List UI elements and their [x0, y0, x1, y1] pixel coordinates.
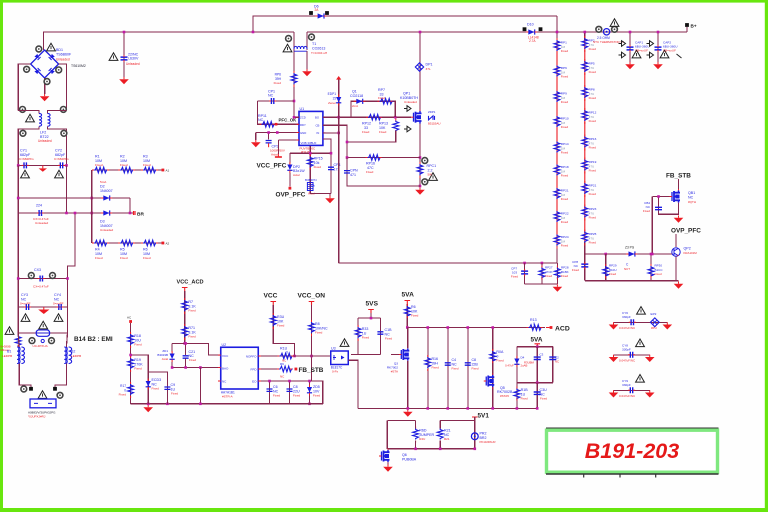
- wire 5V1 box top A: [387, 420, 415, 422]
- svg-text:10M: 10M: [143, 252, 150, 256]
- pad: [24, 66, 30, 72]
- wire right rail: [66, 165, 68, 213]
- wire to L2: [66, 333, 67, 347]
- wire bank1 c: [524, 263, 526, 284]
- inductor L2: [64, 347, 67, 364]
- capacitor CP4: [328, 167, 334, 169]
- svg-text:B3B3PN: B3B3PN: [305, 178, 317, 182]
- warning triangle BD1: [47, 43, 56, 51]
- svg-text:VCC: VCC: [264, 293, 278, 300]
- wire CB row: [323, 125, 347, 157]
- wire opto to gnd bus: [348, 360, 358, 408]
- warning triangle J1: [38, 391, 47, 399]
- MOSFET Q5: [486, 375, 494, 388]
- wire NOPFO row: [261, 355, 331, 357]
- svg-text:Fixed: Fixed: [362, 336, 370, 340]
- svg-text:0: 0: [533, 322, 535, 326]
- wire FPD row: [261, 368, 277, 370]
- svg-text:Fixed: Fixed: [561, 220, 569, 224]
- ground bridge: [44, 94, 46, 96]
- svg-text:Fixed: Fixed: [451, 367, 458, 371]
- tick mark: [677, 54, 682, 58]
- pad: [50, 273, 56, 279]
- svg-text:Z3 PG: Z3 PG: [625, 246, 635, 250]
- svg-text:NOPFO: NOPFO: [246, 355, 257, 359]
- diode D3: [103, 210, 109, 215]
- net PFC_OK: [275, 123, 278, 126]
- zener diode ZD3: [146, 381, 151, 386]
- resistor R10: [280, 353, 294, 359]
- photocoupler PR2: [471, 433, 478, 440]
- junction: [536, 381, 539, 384]
- capacitor CY1: [24, 162, 26, 168]
- wire D3 row: [18, 212, 133, 214]
- title block box: [547, 430, 718, 472]
- resistor RP29: [603, 266, 609, 277]
- wire VCC_ACD column: [184, 291, 186, 343]
- svg-text:Fixed: Fixed: [188, 335, 196, 339]
- wire ACD bus: [407, 327, 545, 329]
- MOSFET QP1: [414, 111, 422, 124]
- wire bank1 r2: [556, 263, 558, 284]
- svg-text:#STA: #STA: [391, 370, 398, 374]
- ground CY9 right: [649, 390, 651, 392]
- resistor RP23: [582, 207, 588, 218]
- svg-text:Fixed: Fixed: [411, 314, 419, 318]
- MOSFET QB1: [672, 190, 680, 203]
- wire bridge top: [43, 32, 45, 50]
- svg-text:C=682PFs: C=682PFs: [54, 157, 69, 161]
- wire 5V1 box top B: [440, 420, 475, 422]
- svg-text:D4: D4: [521, 356, 525, 360]
- probe arrow CAP2 a: [647, 41, 654, 47]
- warning triangle LF2: [26, 114, 35, 122]
- transistor QP2: [672, 248, 680, 256]
- svg-text:1N4007: 1N4007: [100, 224, 113, 228]
- wire U2 gnd row: [172, 367, 221, 369]
- earth ground CY: [42, 165, 44, 168]
- svg-text:Fixed: Fixed: [511, 275, 518, 279]
- polarity mark F1: [41, 339, 44, 342]
- resistor RP28: [555, 268, 561, 279]
- resistor R19: [128, 358, 134, 369]
- pad R6 out: [162, 242, 165, 245]
- wire Q3 drain 2: [407, 328, 409, 341]
- capacitor CX2: [39, 210, 41, 216]
- svg-text:15: 15: [332, 96, 336, 100]
- resistor R7: [182, 300, 188, 311]
- wire comp bottom row: [310, 192, 331, 194]
- wire left rail 4: [17, 307, 19, 333]
- resistor RP12: [368, 114, 382, 120]
- ground CAP1: [629, 62, 631, 64]
- svg-text:330pF: 330pF: [622, 347, 631, 351]
- net BR: [134, 211, 136, 215]
- wire gate speedup loop: [351, 101, 395, 117]
- power pin 5VS: [368, 310, 374, 314]
- resistor RP16: [582, 137, 588, 148]
- zener ZDP1: [429, 116, 434, 120]
- svg-text:R3UBM: R3UBM: [524, 361, 534, 365]
- svg-text:10M: 10M: [95, 252, 102, 256]
- IC U2: [221, 347, 259, 389]
- capacitor CB4: [655, 207, 662, 209]
- svg-text:B2: B2: [71, 350, 75, 354]
- svg-text:C=682PFs: C=682PFs: [19, 157, 34, 161]
- svg-text:Fixed: Fixed: [589, 47, 597, 51]
- ground CY8 left: [613, 355, 615, 357]
- wire RDY row: [257, 101, 299, 124]
- svg-text:Unleaded: Unleaded: [126, 62, 140, 66]
- power pin 5VA2: [535, 344, 541, 348]
- wire VCC_ON column: [311, 305, 313, 381]
- earth ground CY3: [40, 307, 48, 313]
- wire 5VS box bottom: [351, 354, 380, 356]
- wire divider chain 2 top: [584, 32, 586, 40]
- svg-text:Unleaded: Unleaded: [100, 228, 114, 232]
- thermistor TH1: [603, 29, 609, 35]
- diode EP2: [650, 318, 659, 327]
- svg-text:Fixed: Fixed: [119, 393, 127, 397]
- wire C8 column: [467, 328, 469, 409]
- svg-text:GND: GND: [300, 131, 306, 135]
- wire C8 column: [289, 381, 291, 404]
- junction: [74, 212, 77, 215]
- pad ACL: [129, 320, 132, 323]
- svg-text:Fixed: Fixed: [589, 96, 597, 100]
- wire CY3 row: [18, 306, 67, 308]
- wire EDP1 long vertical: [338, 80, 340, 264]
- svg-text:D10: D10: [527, 23, 534, 27]
- wire 5V1 stub: [474, 417, 476, 421]
- wire OVP_PFC row: [585, 253, 672, 255]
- warning triangle CAP2: [660, 50, 669, 58]
- wire fuse row: [18, 332, 67, 334]
- svg-text:B14 B2 : EMI: B14 B2 : EMI: [74, 336, 113, 343]
- wire to ground U1: [255, 133, 257, 141]
- svg-text:Q6: Q6: [402, 453, 407, 457]
- svg-text:NC: NC: [688, 195, 694, 199]
- wire C21 bottom: [185, 359, 187, 368]
- ground Q6: [387, 465, 389, 467]
- junction: [650, 253, 653, 256]
- svg-text:Fixed: Fixed: [643, 209, 650, 213]
- wire C21 stub: [185, 343, 187, 355]
- IC U1: [299, 111, 323, 145]
- svg-text:Fixed: Fixed: [589, 169, 597, 173]
- svg-text:Fixed: Fixed: [561, 274, 568, 278]
- junction: [337, 132, 340, 135]
- diode D4: [514, 359, 519, 364]
- resistor RP2: [582, 38, 588, 49]
- pad: [21, 386, 27, 392]
- capacitor C9: [164, 387, 170, 389]
- pad R3 out: [162, 169, 165, 172]
- svg-text:5VA: 5VA: [402, 292, 415, 299]
- warning triangle CY3: [21, 314, 30, 322]
- junction: [308, 380, 311, 383]
- junction: [604, 253, 607, 256]
- svg-text:Fixed: Fixed: [589, 119, 597, 123]
- svg-text:Unleaded: Unleaded: [38, 139, 52, 143]
- svg-text:OVP_PFC: OVP_PFC: [276, 192, 306, 199]
- ground bank2: [678, 282, 680, 284]
- svg-text:0-Px: 0-Px: [332, 370, 339, 374]
- pad: [61, 107, 67, 113]
- svg-text:330pF: 330pF: [622, 383, 631, 387]
- capacitor CP2: [266, 141, 272, 143]
- resistor R18b: [514, 389, 520, 400]
- svg-text:Fixed: Fixed: [134, 367, 142, 371]
- probe arrow QP1 gate: [404, 106, 411, 112]
- resistor RP18: [554, 165, 560, 176]
- wire 5VA stub: [406, 304, 408, 328]
- wire left rail: [17, 165, 19, 198]
- svg-text:T=0.004 uH: T=0.004 uH: [311, 51, 327, 55]
- svg-text:Fixed: Fixed: [609, 272, 616, 276]
- wire LF2 top right: [48, 111, 67, 114]
- wire FB_STB stub: [678, 179, 680, 190]
- junction QB1 gate: [651, 253, 654, 256]
- junction: [541, 262, 544, 265]
- svg-text:U3: U3: [331, 347, 336, 351]
- svg-text:Fixed: Fixed: [143, 256, 151, 260]
- ground T1: [306, 69, 308, 71]
- junction: [276, 131, 279, 134]
- svg-text:VCC_ACD: VCC_ACD: [177, 280, 204, 286]
- pad: [612, 26, 618, 32]
- junction: [129, 354, 132, 357]
- wire QB1 gate down: [651, 197, 653, 255]
- svg-text:Fixed: Fixed: [561, 100, 569, 104]
- resistor RP22: [554, 211, 560, 222]
- svg-text:CO2118: CO2118: [350, 94, 363, 98]
- svg-text:Fixed: Fixed: [134, 343, 142, 347]
- resistor R2: [120, 167, 134, 173]
- svg-text:Fixed: Fixed: [120, 256, 128, 260]
- svg-text:B1: B1: [7, 350, 11, 354]
- junction: [584, 31, 587, 34]
- ground U1 left: [255, 140, 257, 142]
- wire GND row: [256, 132, 299, 134]
- transformer T1: [294, 46, 307, 49]
- junction: [426, 407, 429, 410]
- pad: [286, 36, 292, 42]
- warning triangle F1: [39, 321, 48, 329]
- pad: [309, 34, 315, 40]
- junction: [406, 326, 409, 329]
- svg-text:U1: U1: [300, 107, 305, 111]
- junction: [171, 366, 174, 369]
- junction bypass branch: [252, 31, 255, 34]
- svg-text:LEDPB: LEDPB: [71, 354, 81, 358]
- wire chain 2 red link: [584, 40, 586, 242]
- probe arrow CAP1 a: [619, 41, 626, 47]
- pad FB_STB: [295, 368, 298, 371]
- svg-text:Fixed: Fixed: [561, 244, 569, 248]
- svg-text:B511BAU: B511BAU: [428, 122, 440, 126]
- svg-text:BD1: BD1: [56, 48, 63, 52]
- resistor RP12: [582, 110, 588, 121]
- svg-text:5W: 5W: [428, 173, 433, 177]
- resistor R33: [355, 327, 361, 338]
- warning triangle TH1: [610, 19, 619, 27]
- wire 5V1 box right: [474, 421, 476, 449]
- pin J1-1: [29, 387, 33, 391]
- diode D10: [528, 29, 534, 34]
- junction: [419, 185, 422, 188]
- wire D2 row: [18, 197, 130, 199]
- wire CS return: [347, 158, 420, 187]
- svg-text:Fixed: Fixed: [521, 397, 528, 401]
- svg-text:DP1: DP1: [426, 63, 433, 67]
- probe arrow CAP2 b: [647, 52, 654, 58]
- wire R21 bottom: [439, 441, 441, 449]
- wire Q3 source: [407, 361, 409, 408]
- inductor LF2 winding B: [48, 113, 51, 126]
- svg-text:10M: 10M: [120, 159, 127, 163]
- wire R16 column: [427, 328, 429, 409]
- svg-text:VCC: VCC: [222, 354, 229, 358]
- junction: [491, 326, 494, 329]
- resistor R9: [279, 366, 293, 372]
- junction: [446, 407, 449, 410]
- svg-text:C3: C3: [540, 353, 544, 357]
- warning triangle CY6: [637, 307, 646, 315]
- resistor RP24: [554, 235, 560, 246]
- pad: [49, 338, 55, 344]
- svg-text:Fixed: Fixed: [431, 366, 439, 370]
- junction CX1: [123, 31, 126, 34]
- resistor RP6: [554, 66, 560, 77]
- wire R20 top: [415, 421, 417, 429]
- wire to L1: [18, 333, 19, 347]
- diode ZD PG: [629, 251, 635, 256]
- wire sense divider rail: [91, 170, 93, 243]
- wire DP2 top: [289, 153, 291, 163]
- svg-text:CB=xxUF: CB=xxUF: [663, 49, 676, 53]
- junction: [474, 448, 477, 451]
- svg-text:LEDPB: LEDPB: [2, 354, 12, 358]
- wire C9 branch: [148, 372, 167, 404]
- junction: [394, 116, 397, 119]
- resistor RP21: [582, 183, 588, 194]
- pad: [20, 107, 26, 113]
- junction: [184, 342, 187, 345]
- pad: [29, 338, 35, 344]
- diode DP1: [415, 63, 423, 71]
- warning triangle CY4: [54, 314, 63, 322]
- junction: [414, 448, 417, 451]
- MOSFET Q3: [401, 348, 409, 361]
- svg-text:Fixed: Fixed: [274, 81, 282, 85]
- svg-text:Fixed: Fixed: [189, 358, 196, 362]
- junction: [90, 212, 93, 215]
- capacitor C13: [377, 332, 383, 334]
- svg-text:Fixed: Fixed: [471, 367, 478, 371]
- wire CAP1 branch: [629, 32, 631, 62]
- resistor RP6: [291, 73, 297, 84]
- zener diode EDP1: [336, 97, 341, 102]
- svg-text:U2: U2: [222, 343, 227, 347]
- svg-text:Axial: Axial: [293, 173, 300, 177]
- junction: [346, 141, 349, 144]
- resistor RP25: [582, 232, 588, 243]
- capacitor C4: [445, 363, 451, 365]
- fuse F1: [36, 330, 49, 336]
- pin J1-2: [53, 387, 57, 391]
- probe arrow QP1 source: [404, 126, 411, 132]
- svg-text:Fixed: Fixed: [366, 170, 374, 174]
- inductor LF2 winding A: [39, 113, 42, 126]
- svg-text:CO2613: CO2613: [312, 46, 325, 50]
- svg-text:Fixed: Fixed: [561, 174, 569, 178]
- wire C4 column: [447, 328, 449, 409]
- connector J1: [30, 399, 56, 408]
- junction: [199, 366, 202, 369]
- svg-text:EO: EO: [252, 380, 257, 384]
- resistor R0A: [490, 351, 496, 362]
- warning triangle RPC1: [429, 173, 438, 181]
- junction: [370, 317, 373, 320]
- wire right rail 4: [67, 307, 69, 333]
- capacitor C8: [465, 363, 471, 365]
- junction: [556, 31, 559, 34]
- resistor R71: [182, 326, 188, 337]
- svg-text:Fixed: Fixed: [540, 397, 547, 401]
- wire 5VA box top: [517, 346, 553, 348]
- junction: [65, 164, 68, 167]
- svg-text:EP2: EP2: [651, 312, 657, 316]
- wire R0A column: [492, 328, 494, 409]
- diode Q1: [356, 99, 362, 104]
- title block line bottom: [546, 473, 719, 475]
- pin square: [523, 27, 527, 31]
- svg-text:Fixed: Fixed: [152, 387, 160, 391]
- wire divider chain 2 bottom: [584, 242, 586, 254]
- svg-text:Zener: Zener: [328, 101, 336, 105]
- junction: [466, 326, 469, 329]
- svg-text:FPD: FPD: [251, 368, 258, 372]
- svg-text:TS610M2: TS610M2: [71, 64, 86, 68]
- ground CY6 left: [613, 322, 615, 324]
- wire bridge bottom: [44, 78, 46, 94]
- svg-text:Fixed: Fixed: [362, 130, 370, 134]
- junction: [426, 326, 429, 329]
- junction: [129, 212, 132, 215]
- pad: [422, 158, 428, 164]
- resistor RP30: [648, 266, 654, 277]
- wire 5VS box top: [358, 317, 380, 319]
- junction: [17, 197, 20, 200]
- svg-text:Fixed: Fixed: [273, 394, 280, 398]
- svg-text:Fixed: Fixed: [496, 359, 504, 363]
- capacitor CP8: [581, 264, 588, 267]
- pad OVP_PFC: [289, 187, 292, 190]
- svg-text:ACD: ACD: [555, 326, 570, 333]
- wire ZD5 column: [309, 381, 311, 404]
- svg-text:QP2: QP2: [684, 247, 691, 251]
- svg-text:20k: 20k: [310, 184, 315, 188]
- resistor RP5: [582, 61, 588, 72]
- svg-text:BR: BR: [137, 212, 144, 218]
- wire comp row: [290, 152, 331, 154]
- power pin VCC_ACD: [182, 288, 188, 292]
- svg-text:CX3: CX3: [34, 268, 41, 272]
- resistor R30: [270, 315, 276, 326]
- wire QB1 gate: [652, 196, 669, 198]
- wire T1 left / ZCD column: [293, 32, 295, 117]
